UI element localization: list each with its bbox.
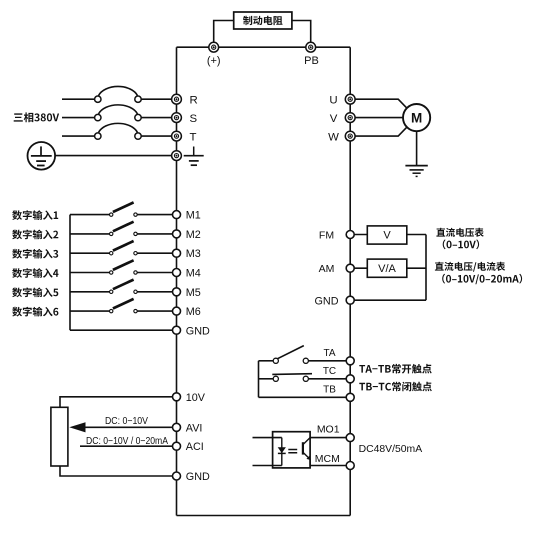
label M1 xyxy=(186,210,201,222)
wire emitter to MCM xyxy=(310,465,350,467)
label （0-10V） xyxy=(443,240,479,250)
svg-text:W: W xyxy=(328,131,339,143)
terminal (+) xyxy=(209,42,219,52)
wire phase R input xyxy=(62,98,95,100)
label 数字输入1 xyxy=(12,210,58,220)
terminal M6 xyxy=(173,307,181,315)
svg-text:V: V xyxy=(330,113,338,125)
label MO1 xyxy=(317,424,340,436)
svg-text:AVI: AVI xyxy=(186,422,203,434)
svg-text:TA: TA xyxy=(323,348,335,359)
wire TC contact to terminal xyxy=(308,378,350,380)
terminal GND (meter) xyxy=(346,296,354,304)
protective earth symbol (circled ground) xyxy=(28,142,56,170)
breaker pole R xyxy=(95,86,142,102)
terminal GND (digital) xyxy=(173,326,181,334)
terminal TB xyxy=(346,393,354,401)
switch S5 (digital input 5) xyxy=(110,280,138,294)
svg-text:M: M xyxy=(411,111,422,126)
terminal M2 xyxy=(173,230,181,238)
terminal R xyxy=(172,94,182,104)
wire MO1 left stub xyxy=(253,437,282,439)
optocoupler LED xyxy=(278,438,286,466)
svg-text:MO1: MO1 xyxy=(317,424,340,436)
wire FM to voltmeter xyxy=(350,234,367,236)
terminal GND (analog) xyxy=(173,472,181,480)
svg-text:M1: M1 xyxy=(186,210,201,222)
label 数字输入3 xyxy=(12,249,58,259)
terminal T xyxy=(172,131,182,141)
label FM xyxy=(319,229,334,241)
wire input 6 to switch xyxy=(70,310,110,312)
svg-text:M5: M5 xyxy=(186,287,201,299)
label （0-10V/0-20mA） xyxy=(442,274,522,285)
wire inverter bottom edge xyxy=(177,515,351,517)
switch S1 (digital input 1) xyxy=(110,202,138,216)
wire switch 5 to terminal M5 xyxy=(137,291,176,293)
wire motor to ground xyxy=(416,131,418,165)
wire braking resistor left lead xyxy=(214,21,234,48)
label 三相380V xyxy=(14,112,59,122)
label GND (meter) xyxy=(315,296,339,308)
switch S2 (digital input 2) xyxy=(110,222,138,236)
label MCM xyxy=(315,453,340,465)
label 直流电压表 xyxy=(436,228,483,237)
svg-text:S: S xyxy=(190,113,198,125)
relay contact TA (normally open) xyxy=(273,346,308,364)
wire bus to TC contact xyxy=(259,378,274,380)
terminal M5 xyxy=(173,288,181,296)
label M5 xyxy=(186,287,201,299)
wire switch 2 to terminal M2 xyxy=(137,233,176,235)
terminal 10V xyxy=(173,393,181,401)
wire meter return bus xyxy=(425,235,427,301)
wire collector to MO1 xyxy=(310,437,350,439)
wire switch 1 to terminal M1 xyxy=(137,214,176,216)
terminal V xyxy=(345,113,355,123)
ground symbol at terminal E xyxy=(184,147,204,166)
label M4 xyxy=(186,268,201,280)
terminal FM xyxy=(346,231,354,239)
wire breaker R to terminal xyxy=(141,98,176,100)
optocoupler light coupling marks xyxy=(288,450,297,453)
wire earth to terminal E xyxy=(55,155,176,157)
svg-text:TC: TC xyxy=(323,366,336,377)
wire phase S input xyxy=(62,117,95,119)
wire relay bus xyxy=(258,361,260,398)
terminal M3 xyxy=(173,249,181,257)
wire switch 6 to terminal M6 xyxy=(137,310,176,312)
wire V to motor xyxy=(350,117,403,119)
wire AM to volt/ammeter xyxy=(350,267,367,269)
terminal MCM xyxy=(346,462,354,470)
wire digital input bus xyxy=(69,215,71,331)
terminal W xyxy=(345,131,355,141)
label 数字输入5 xyxy=(12,288,58,298)
wire ACI stub xyxy=(80,445,177,447)
wire switch 3 to terminal M3 xyxy=(137,252,176,254)
switch S6 (digital input 6) xyxy=(110,299,138,313)
svg-text:R: R xyxy=(190,94,198,106)
label V xyxy=(330,113,338,125)
wire bus to TA contact xyxy=(259,360,274,362)
wire U to motor xyxy=(350,99,407,108)
svg-text:ACI: ACI xyxy=(186,441,204,453)
label S xyxy=(190,113,198,125)
optocoupler U1 box xyxy=(273,432,311,468)
label GND (analog) xyxy=(186,471,210,483)
wire input 5 to switch xyxy=(70,291,110,293)
optocoupler phototransistor xyxy=(303,438,311,466)
switch S4 (digital input 4) xyxy=(110,260,138,274)
svg-text:GND: GND xyxy=(186,325,210,337)
terminal S xyxy=(172,113,182,123)
terminal MO1 xyxy=(346,434,354,442)
label 数字输入2 xyxy=(12,230,58,240)
svg-text:GND: GND xyxy=(186,471,210,483)
label PB xyxy=(304,55,319,67)
wire 10V to potentiometer xyxy=(60,397,177,408)
label TA-TB常开触点 xyxy=(359,364,431,374)
wire W to motor xyxy=(350,127,407,136)
label R xyxy=(190,94,198,106)
value label 制动电阻 xyxy=(243,16,283,25)
svg-text:FM: FM xyxy=(319,229,334,241)
wire potentiometer to GND xyxy=(60,466,177,476)
svg-text:AM: AM xyxy=(319,263,335,275)
label M2 xyxy=(186,229,201,241)
svg-text:MCM: MCM xyxy=(315,453,340,465)
svg-text:M4: M4 xyxy=(186,268,201,280)
switch S3 (digital input 3) xyxy=(110,241,138,255)
wire input 3 to switch xyxy=(70,252,110,254)
terminal AM xyxy=(346,264,354,272)
terminal PB xyxy=(306,42,316,52)
label 10V xyxy=(186,392,206,404)
label AVI xyxy=(186,422,203,434)
svg-text:(+): (+) xyxy=(207,55,221,67)
potentiometer (analog speed setting) xyxy=(51,407,68,466)
motor M xyxy=(403,104,430,131)
wire bus to terminal TB xyxy=(259,396,351,398)
wire wiper to AVI xyxy=(84,426,177,428)
potentiometer wiper arrow xyxy=(69,422,85,432)
volt/ammeter box V/A xyxy=(367,259,407,277)
svg-text:T: T xyxy=(190,131,197,143)
svg-text:M3: M3 xyxy=(186,248,201,260)
terminal TC xyxy=(346,375,354,383)
label M6 xyxy=(186,306,201,318)
label M3 xyxy=(186,248,201,260)
terminal M4 xyxy=(173,269,181,277)
svg-text:DC: 0−10V: DC: 0−10V xyxy=(105,416,148,427)
wire input 1 to switch xyxy=(70,214,110,216)
svg-text:TB: TB xyxy=(323,385,336,396)
wire breaker S to terminal xyxy=(141,117,176,119)
svg-text:PB: PB xyxy=(304,55,319,67)
label TB-TC常闭触点 xyxy=(359,382,432,392)
relay contact TC (closed) xyxy=(272,374,312,382)
wire MCM left stub xyxy=(253,465,282,467)
label TB xyxy=(323,385,336,396)
label TA xyxy=(323,348,335,359)
label (+) xyxy=(207,55,221,67)
svg-text:DC: 0−10V / 0−20mA: DC: 0−10V / 0−20mA xyxy=(86,436,168,447)
svg-text:M6: M6 xyxy=(186,306,201,318)
label GND (digital) xyxy=(186,325,210,337)
label 数字输入4 xyxy=(12,268,58,278)
terminal U xyxy=(345,94,355,104)
svg-text:M2: M2 xyxy=(186,229,201,241)
svg-text:V/A: V/A xyxy=(378,263,396,275)
wire switch 4 to terminal M4 xyxy=(137,272,176,274)
wire voltmeter to return xyxy=(407,234,426,236)
breaker pole S xyxy=(95,105,142,121)
label 直流电压/电流表 xyxy=(435,262,505,272)
label DC48V/50mA xyxy=(359,444,423,455)
terminal ACI xyxy=(173,442,181,450)
label 数字输入6 xyxy=(12,307,58,317)
svg-text:10V: 10V xyxy=(186,392,206,404)
wire inverter left edge xyxy=(176,47,178,515)
wire inverter right edge xyxy=(349,47,351,515)
label TC xyxy=(323,366,336,377)
label T xyxy=(190,131,197,143)
wire phase T input xyxy=(62,135,95,137)
wire braking resistor right lead xyxy=(292,21,311,48)
label ACI xyxy=(186,441,204,453)
resistor box 制动电阻 (braking resistor) xyxy=(234,12,292,29)
label DC: 0-10V / 0-20mA xyxy=(86,436,168,447)
terminal E (earth) xyxy=(172,151,182,161)
terminal AVI xyxy=(173,423,181,431)
label AM xyxy=(319,263,335,275)
wire input 4 to switch xyxy=(70,272,110,274)
wire GND to meter return xyxy=(350,299,426,301)
voltmeter box V xyxy=(367,226,407,244)
label W xyxy=(328,131,339,143)
breaker pole T xyxy=(95,123,142,139)
wire inverter top edge xyxy=(177,46,351,48)
ground symbol below motor xyxy=(405,166,427,177)
terminal M1 xyxy=(173,211,181,219)
wire TA contact to terminal xyxy=(308,360,350,362)
label U xyxy=(329,94,337,106)
svg-text:U: U xyxy=(329,94,337,106)
terminal TA xyxy=(346,357,354,365)
wire volt/ammeter to return xyxy=(407,267,426,269)
svg-text:GND: GND xyxy=(315,296,339,308)
wire bus to terminal GND xyxy=(70,329,177,331)
wire breaker T to terminal xyxy=(141,135,176,137)
label DC: 0-10V xyxy=(105,416,148,427)
svg-text:V: V xyxy=(383,230,391,242)
svg-text:DC48V/50mA: DC48V/50mA xyxy=(359,444,423,455)
wire input 2 to switch xyxy=(70,233,110,235)
